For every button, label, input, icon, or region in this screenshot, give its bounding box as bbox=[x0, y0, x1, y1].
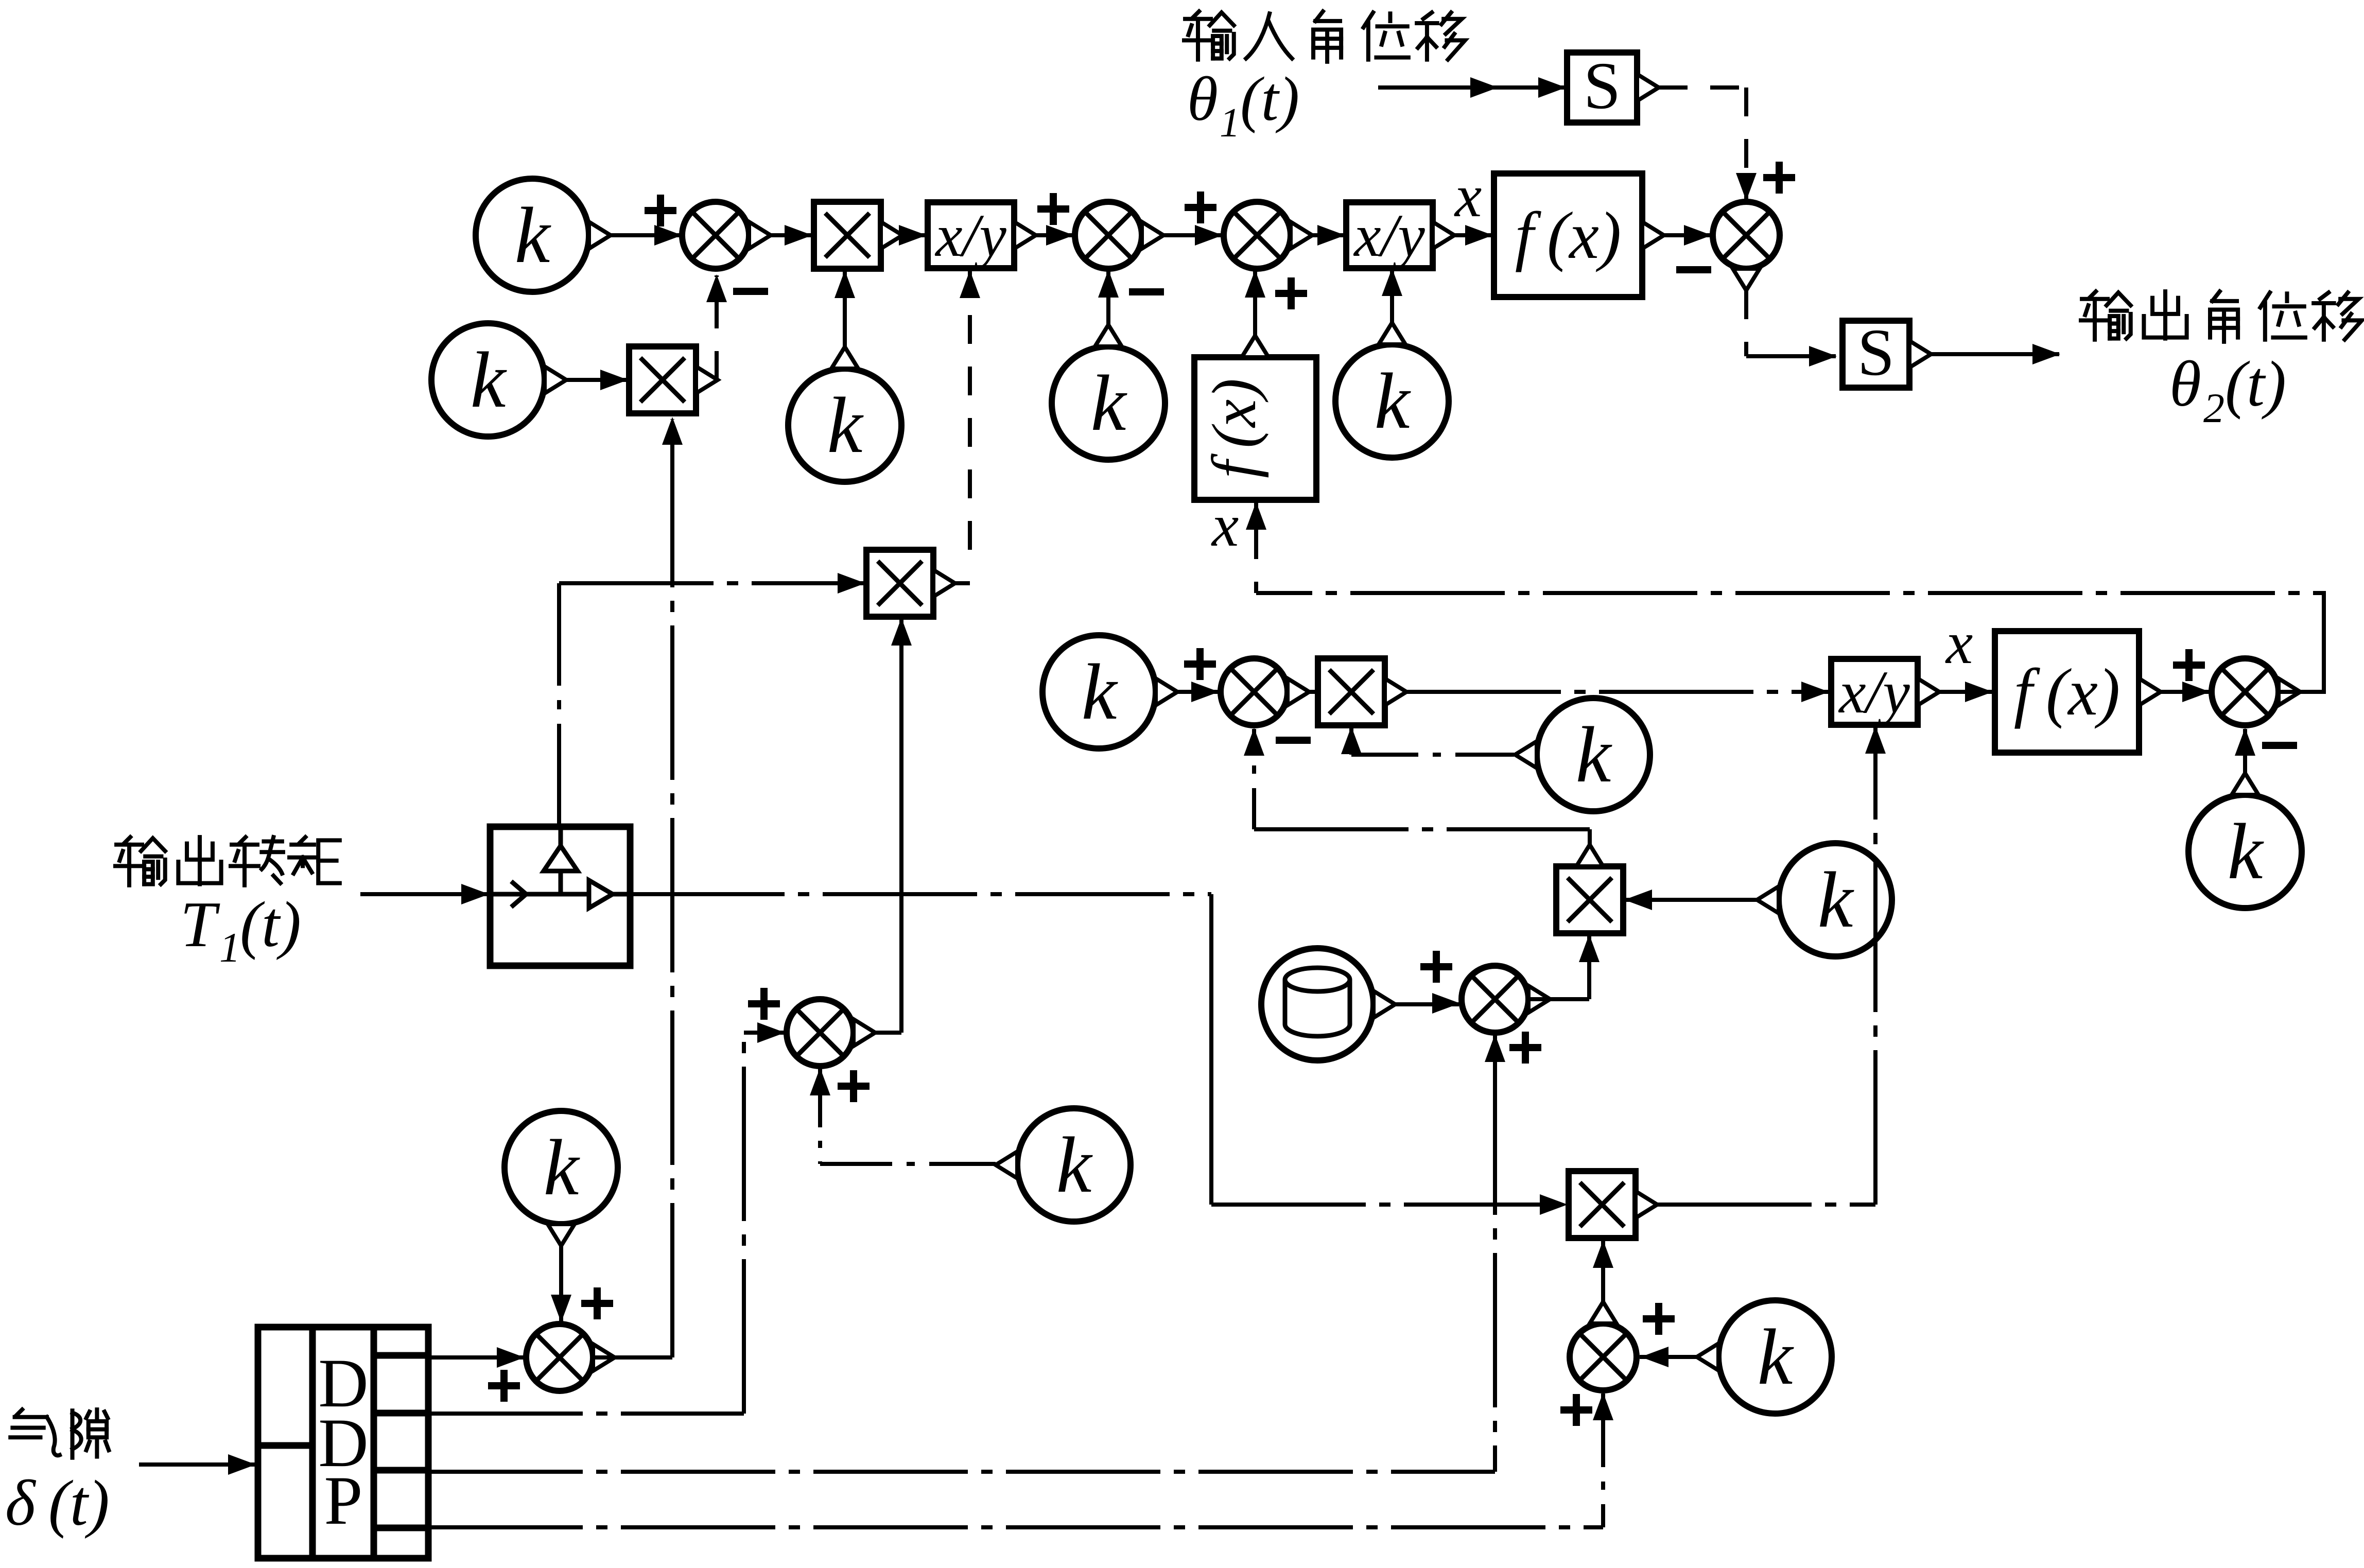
svg-text:k: k bbox=[471, 336, 508, 424]
svg-text:x: x bbox=[1945, 609, 1973, 676]
svg-text:f (x): f (x) bbox=[2014, 655, 2120, 729]
svg-text:T: T bbox=[180, 889, 220, 961]
svg-text:δ (t): δ (t) bbox=[5, 1468, 110, 1539]
svg-text:S: S bbox=[1857, 316, 1894, 390]
svg-text:(t): (t) bbox=[240, 889, 301, 961]
svg-text:x/y: x/y bbox=[1838, 658, 1910, 726]
svg-text:k: k bbox=[1082, 648, 1119, 736]
svg-text:k: k bbox=[1091, 359, 1128, 447]
svg-text:x: x bbox=[1211, 492, 1239, 559]
svg-text:k: k bbox=[544, 1123, 581, 1212]
svg-text:k: k bbox=[1375, 357, 1412, 445]
svg-text:k: k bbox=[1818, 856, 1855, 944]
svg-text:(t): (t) bbox=[1240, 64, 1299, 134]
svg-text:f (x): f (x) bbox=[1515, 199, 1621, 273]
svg-text:k: k bbox=[1576, 710, 1613, 799]
svg-text:k: k bbox=[2228, 807, 2265, 896]
svg-text:(t): (t) bbox=[2225, 349, 2286, 420]
svg-text:S: S bbox=[1584, 49, 1621, 123]
svg-text:θ: θ bbox=[2169, 349, 2201, 420]
svg-text:x/y: x/y bbox=[1353, 202, 1425, 269]
svg-text:k: k bbox=[827, 381, 864, 469]
svg-text:f (x): f (x) bbox=[1200, 378, 1269, 478]
svg-text:1: 1 bbox=[219, 924, 240, 971]
svg-text:k: k bbox=[515, 191, 552, 280]
svg-text:θ: θ bbox=[1187, 64, 1218, 134]
svg-text:k: k bbox=[1758, 1313, 1795, 1401]
svg-text:2: 2 bbox=[2203, 385, 2224, 431]
svg-text:P: P bbox=[324, 1462, 362, 1539]
svg-text:1: 1 bbox=[1220, 100, 1240, 146]
svg-text:k: k bbox=[1056, 1121, 1093, 1209]
svg-text:x: x bbox=[1454, 162, 1482, 230]
svg-text:x/y: x/y bbox=[934, 202, 1006, 269]
